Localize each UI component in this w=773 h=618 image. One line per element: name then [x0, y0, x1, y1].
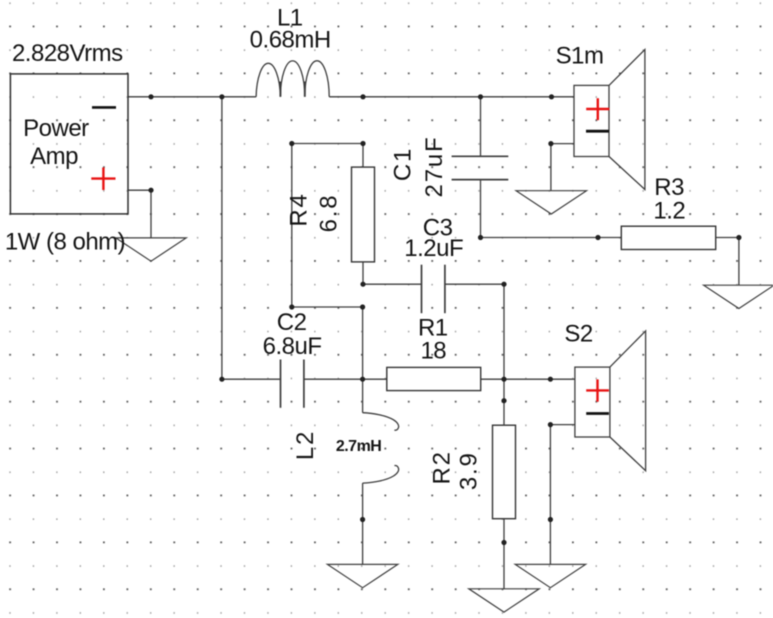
svg-text:3.9: 3.9: [456, 451, 483, 490]
svg-text:0.68mH: 0.68mH: [250, 27, 331, 54]
svg-text:2.7mH: 2.7mH: [336, 438, 382, 455]
svg-text:C1: C1: [390, 147, 417, 181]
svg-text:6.8: 6.8: [316, 194, 343, 233]
svg-text:1.2: 1.2: [653, 197, 685, 224]
svg-text:18: 18: [420, 338, 446, 365]
svg-text:6.8uF: 6.8uF: [263, 333, 322, 360]
svg-text:1.2uF: 1.2uF: [404, 235, 463, 262]
svg-text:L2: L2: [292, 430, 319, 460]
svg-text:1W (8 ohm): 1W (8 ohm): [5, 229, 125, 256]
svg-text:2.828Vrms: 2.828Vrms: [12, 40, 123, 67]
svg-text:Power: Power: [23, 115, 89, 142]
svg-text:27uF: 27uF: [421, 136, 448, 198]
svg-text:R4: R4: [286, 192, 313, 226]
svg-text:Amp: Amp: [30, 143, 78, 170]
svg-text:S2: S2: [564, 320, 593, 347]
svg-text:R2: R2: [428, 450, 455, 484]
svg-text:S1m: S1m: [556, 42, 604, 69]
